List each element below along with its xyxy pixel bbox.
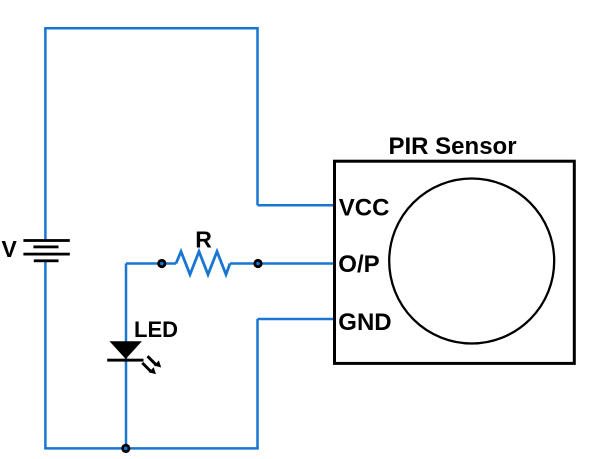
svg-text:R: R xyxy=(195,227,212,253)
wire: GND horizontal from PIR box xyxy=(258,318,335,321)
wire: right vertical down to VCC level xyxy=(256,28,259,205)
wire: battery top to top-left corner xyxy=(44,28,47,240)
wire: bottom rail xyxy=(44,447,259,450)
svg-text:VCC: VCC xyxy=(339,195,390,222)
battery V plate short bottom xyxy=(34,259,59,262)
wire: top horizontal run xyxy=(44,27,259,30)
battery V plate short upper xyxy=(33,246,58,249)
PIR sensor box U1 xyxy=(335,161,575,363)
svg-text:GND: GND xyxy=(338,309,391,336)
LED cathode bar xyxy=(107,359,143,362)
wire: VCC horizontal into PIR box xyxy=(258,204,335,207)
LED D1 triangle xyxy=(110,341,142,359)
battery V plate long lower xyxy=(23,253,69,256)
svg-text:V: V xyxy=(2,236,18,262)
svg-text:PIR Sensor: PIR Sensor xyxy=(389,133,517,160)
resistor R1 zigzag body xyxy=(176,252,230,275)
wire: O/P horizontal from corner to resistor and on to PIR box xyxy=(126,262,335,265)
node: junction dot on bottom rail xyxy=(121,444,130,453)
LED emission arrow upper xyxy=(148,356,162,367)
wire: GND vertical to bottom rail xyxy=(256,319,259,448)
battery V plate long top xyxy=(23,239,69,242)
wire: vertical through LED down to bottom rail xyxy=(125,264,128,449)
node: junction dot left of resistor xyxy=(157,259,166,268)
svg-text:O/P: O/P xyxy=(338,251,379,278)
svg-text:LED: LED xyxy=(134,317,178,342)
LED emission arrow lower xyxy=(142,363,156,374)
node: junction dot right of resistor xyxy=(253,259,262,268)
PIR sensor lens circle xyxy=(389,179,554,344)
wire: battery bottom to bottom rail xyxy=(44,261,47,448)
